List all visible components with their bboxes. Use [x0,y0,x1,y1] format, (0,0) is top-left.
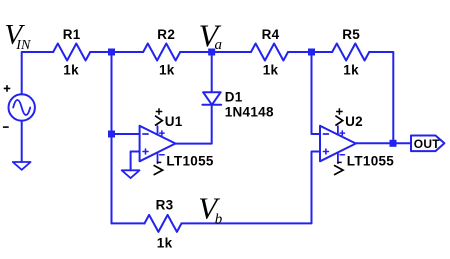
op-amp U2 V+ pin text [335,108,342,125]
svg-text:R1: R1 [63,27,81,42]
op-amp U1 V+ pin text [155,108,162,125]
voltage source V1 [9,94,35,120]
svg-text:1k: 1k [157,235,173,250]
wire node Va down to diode [211,52,213,92]
wire left column [111,52,113,223]
output flag OUT [411,136,444,152]
diode D1 [203,92,221,105]
svg-text:LT1055: LT1055 [347,153,395,168]
wire VIN top corner [22,52,54,94]
op-amp U2 V- pin text [334,162,343,175]
svg-text:b: b [215,211,223,227]
wire bottom row (R3) [112,222,145,224]
junction node B [308,49,315,56]
wire R1 to R2 [90,51,143,53]
wire U2 output to OUT flag [356,142,411,144]
svg-text:1k: 1k [263,63,279,78]
junction output node [390,140,397,147]
svg-text:OUT: OUT [414,137,440,151]
ground (U1 plus input) [122,170,140,178]
svg-text:1k: 1k [343,63,359,78]
wire U1 plus input to ground [131,152,140,171]
source plus marker [4,85,11,92]
op-amp U2 [320,126,356,162]
junction node Va [208,49,215,56]
source minus marker [3,126,9,128]
op-amp U1 V- pin text [154,162,163,175]
resistor R1 [53,44,90,61]
resistor R5 [332,44,369,61]
svg-text:U1: U1 [165,114,183,129]
svg-text:R5: R5 [342,27,360,42]
wire R2 to R4 (node Va) [180,51,251,53]
wire source to ground [21,121,23,162]
svg-text:LT1055: LT1055 [166,153,214,168]
resistor R3 [145,215,182,232]
op-amp U1 [140,126,176,162]
wire to U1 minus input [112,133,140,135]
svg-text:a: a [215,37,223,53]
resistor R4 [251,44,288,61]
wire R5 to output column [369,52,393,143]
svg-text:1N4148: 1N4148 [225,105,274,120]
wire junction B to U2 minus input [312,52,321,134]
svg-text:R3: R3 [156,198,174,213]
svg-text:IN: IN [15,38,31,53]
resistor R2 [143,44,180,61]
svg-text:D1: D1 [225,89,243,104]
svg-text:R4: R4 [262,27,280,42]
svg-text:R2: R2 [157,27,175,42]
svg-text:1k: 1k [159,63,175,78]
wire R3 to right column [182,152,321,224]
wire R4 to R5 [288,51,332,53]
svg-text:1k: 1k [63,63,79,78]
junction U1 minus tap [108,131,115,138]
ground (below source) [13,162,31,170]
svg-text:U2: U2 [345,114,363,129]
wire U1 output to diode cathode [175,105,211,144]
junction node A [108,49,115,56]
